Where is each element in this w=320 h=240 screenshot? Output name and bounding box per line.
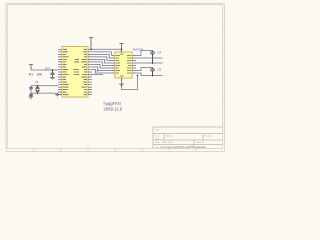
svg-text:2009.12.26: 2009.12.26 xyxy=(162,142,174,144)
wire C4 top notch xyxy=(136,51,153,56)
svg-text:C5: C5 xyxy=(158,68,162,72)
capacitor C3 (reset) xyxy=(51,70,55,78)
svg-text:10K: 10K xyxy=(37,73,44,77)
junction reset cap xyxy=(52,69,54,71)
capacitor C5 xyxy=(150,68,154,76)
U1 right pins xyxy=(88,49,92,94)
junction gnd branch xyxy=(137,75,139,77)
U2 pin name labels xyxy=(116,54,131,76)
wire C5 top notch xyxy=(136,68,153,71)
svg-text:RST: RST xyxy=(45,66,51,70)
IC U1 ATmega8535 xyxy=(62,47,88,98)
junction VCC at U1 pin xyxy=(90,48,92,50)
svg-text:E:\hyq\atmega8535\mega8535-mcu: E:\hyq\atmega8535\mega8535-mcu.Sch xyxy=(161,146,206,149)
net label stub wire xyxy=(92,74,103,76)
svg-text:R1: R1 xyxy=(29,73,33,77)
U2 right pins xyxy=(132,56,136,74)
svg-text:Y1: Y1 xyxy=(35,80,39,84)
svg-text:Number: Number xyxy=(166,134,174,137)
wire rail V- xyxy=(136,73,163,76)
svg-text:File:: File: xyxy=(155,147,160,149)
ground U1 area xyxy=(55,93,60,97)
resistor R1 label xyxy=(29,73,33,77)
ground crystal caps xyxy=(29,97,34,99)
net label text xyxy=(95,69,99,73)
wire C1 to gnd rail xyxy=(30,90,32,93)
capacitor C2 xyxy=(29,93,33,97)
svg-text:hyqgFAN: hyqgFAN xyxy=(104,101,121,106)
capacitor C4 xyxy=(150,51,154,64)
wire XTAL1 xyxy=(31,92,58,94)
svg-text:Sheet of: Sheet of xyxy=(196,141,205,144)
C5 label xyxy=(158,68,162,72)
author note text xyxy=(104,101,123,112)
wire VCC U1 pin to U2 pin16 xyxy=(92,48,122,50)
junction VCC at U2 xyxy=(121,48,123,50)
wire U2 pin15 down xyxy=(121,78,123,90)
label Y1 xyxy=(35,80,39,84)
svg-text:Date:: Date: xyxy=(155,141,161,144)
IC U2 MAX232 xyxy=(115,52,132,78)
ground reset cap xyxy=(50,78,55,80)
U1 pin name labels xyxy=(63,49,87,94)
U2 left pins xyxy=(112,56,116,74)
svg-text:2009.12.6: 2009.12.6 xyxy=(104,107,123,112)
VCC power bar above U2 xyxy=(119,44,123,53)
svg-text:P3: P3 xyxy=(95,69,99,73)
wire reset rail xyxy=(31,69,58,71)
svg-text:Revision: Revision xyxy=(205,135,214,137)
junction C5 rail xyxy=(152,75,154,77)
junction XTAL1 xyxy=(37,92,39,94)
svg-text:C4: C4 xyxy=(158,51,162,55)
U1 left pins xyxy=(58,49,62,94)
VCC power bar reset xyxy=(29,65,33,71)
capacitor C1 xyxy=(29,86,33,90)
U2 top pin 16 xyxy=(121,49,123,53)
wire XTAL2 xyxy=(31,85,58,87)
C4 label xyxy=(158,51,162,55)
crystal Y1 xyxy=(36,86,39,93)
R1 value label xyxy=(37,73,44,77)
wire rail V+ xyxy=(136,62,163,64)
wire bus U1 to U2 (serial and control lines) xyxy=(92,52,112,73)
ground U2 xyxy=(119,84,124,86)
U2 designator label xyxy=(133,47,144,51)
junction XTAL2 xyxy=(37,85,39,87)
junction C4 rail xyxy=(152,62,154,64)
U2 bottom pin 15 xyxy=(121,78,123,82)
wire rail T1OUT xyxy=(136,57,163,59)
VCC power bar above U1 right (node VCC) xyxy=(89,38,93,50)
wire V- branch to ground xyxy=(122,76,138,90)
label RST xyxy=(45,66,51,70)
